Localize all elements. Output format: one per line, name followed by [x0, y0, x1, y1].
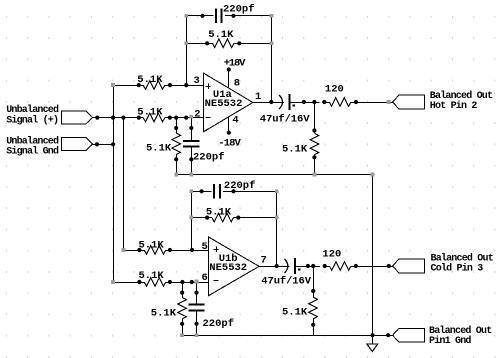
svg-text:220pf: 220pf	[223, 3, 255, 15]
svg-text:5.1K: 5.1K	[139, 239, 165, 251]
svg-text:6: 6	[202, 272, 208, 284]
svg-text:5.1K: 5.1K	[151, 308, 177, 320]
svg-text:5.1K: 5.1K	[282, 307, 308, 319]
svg-text:Signal (+): Signal (+)	[6, 114, 58, 126]
svg-text:120: 120	[322, 248, 341, 260]
svg-text:5: 5	[202, 241, 208, 253]
svg-text:3: 3	[194, 75, 200, 87]
svg-text:5.1K: 5.1K	[208, 29, 234, 41]
svg-text:+18V: +18V	[224, 58, 246, 70]
svg-text:7: 7	[261, 255, 267, 267]
svg-text:220pf: 220pf	[193, 152, 225, 164]
svg-text:Cold Pin 3: Cold Pin 3	[431, 263, 484, 275]
svg-text:5.1K: 5.1K	[139, 270, 165, 282]
svg-text:5.1K: 5.1K	[146, 143, 172, 155]
svg-text:5.1K: 5.1K	[137, 74, 163, 86]
svg-text:5.1K: 5.1K	[282, 144, 308, 156]
svg-text:Unbalanced: Unbalanced	[6, 104, 59, 116]
svg-text:Unbalanced: Unbalanced	[6, 135, 59, 147]
svg-text:Pin1 Gnd: Pin1 Gnd	[429, 335, 471, 347]
svg-text:5.1K: 5.1K	[206, 206, 232, 218]
svg-text:Hot Pin 2: Hot Pin 2	[430, 100, 478, 112]
svg-text:1: 1	[255, 91, 261, 103]
svg-text:-18V: -18V	[218, 137, 241, 149]
svg-text:120: 120	[325, 83, 344, 95]
svg-text:220pf: 220pf	[224, 180, 256, 192]
svg-text:47uf/16V: 47uf/16V	[260, 113, 310, 125]
svg-text:2: 2	[194, 108, 200, 120]
svg-text:NE5532: NE5532	[209, 262, 247, 274]
svg-text:NE5532: NE5532	[205, 98, 243, 110]
svg-text:5.1K: 5.1K	[137, 107, 163, 119]
svg-text:4: 4	[232, 115, 238, 127]
svg-text:220pf: 220pf	[203, 318, 235, 330]
svg-text:47uf/16V: 47uf/16V	[261, 276, 311, 288]
svg-text:Signal Gnd: Signal Gnd	[6, 146, 59, 158]
svg-text:8: 8	[234, 77, 240, 89]
